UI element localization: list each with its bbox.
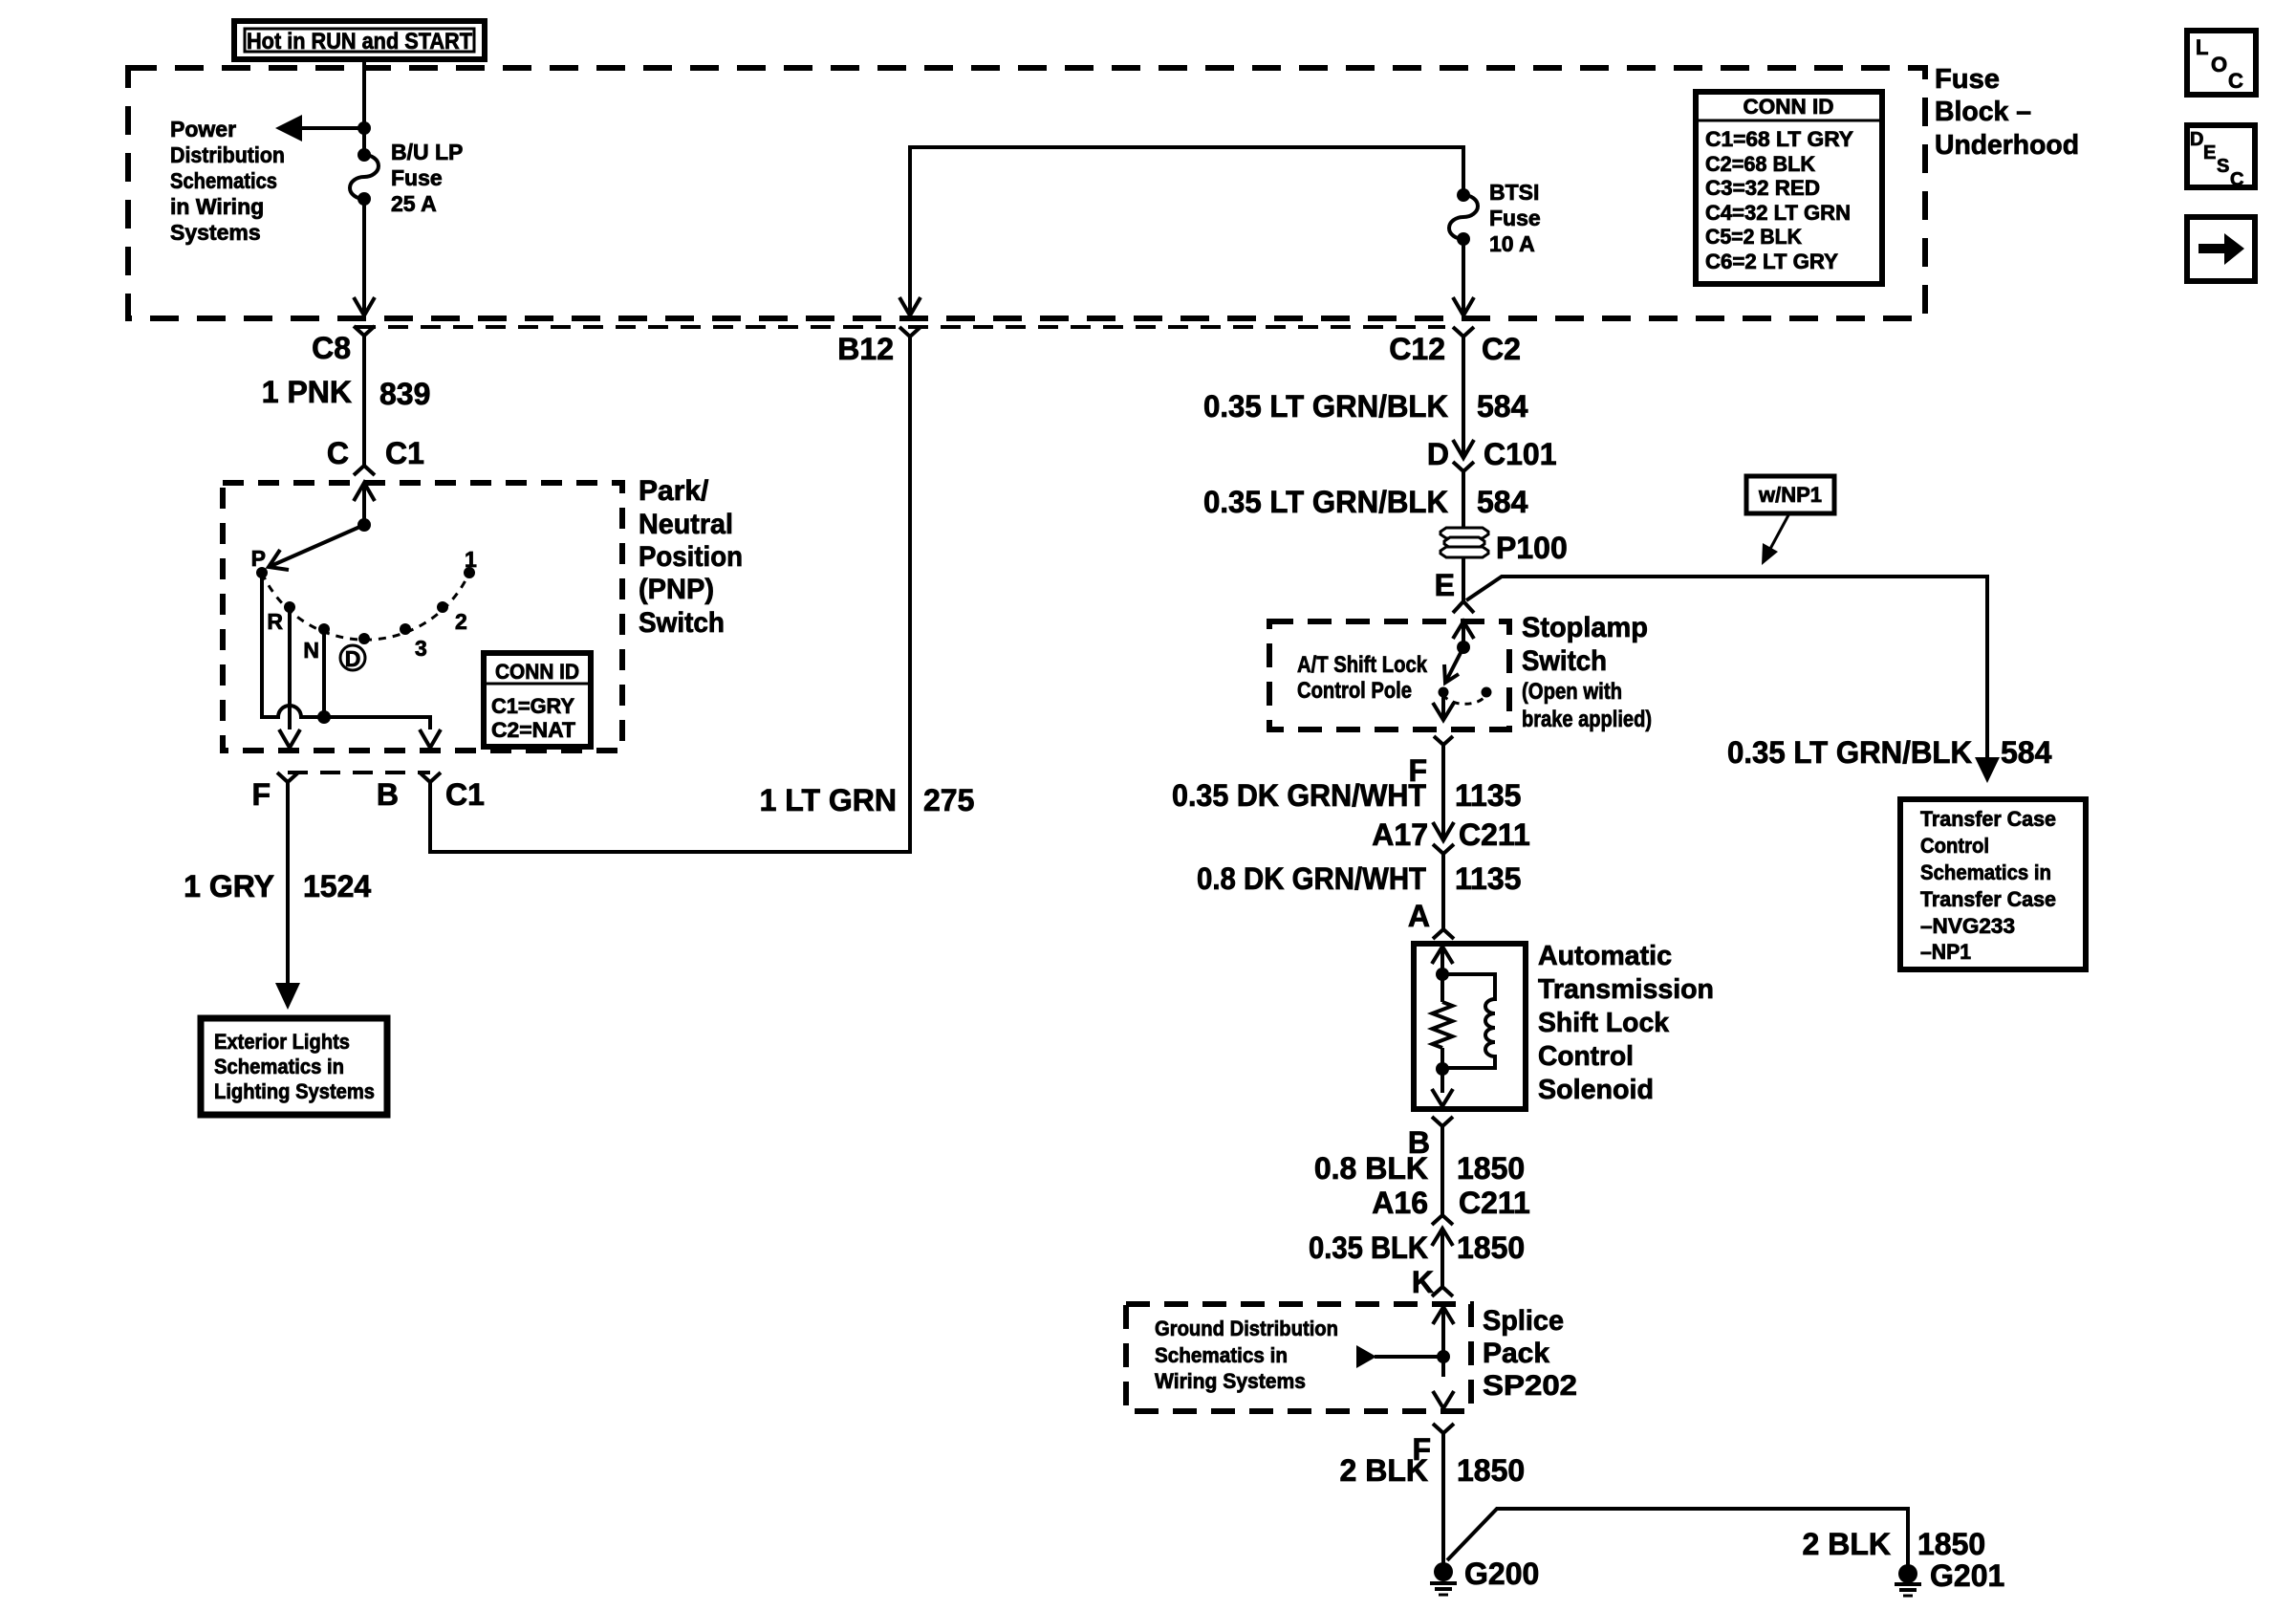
svg-text:Transmission: Transmission [1538,974,1714,1005]
wire from R down to F [288,607,292,729]
svg-text:Solenoid: Solenoid [1538,1075,1654,1105]
svg-text:Control: Control [1920,834,1989,858]
contact N [318,623,330,635]
wire: fuse down to C8 [362,199,366,316]
svg-text:Fuse: Fuse [1935,64,2000,95]
svg-text:Power: Power [170,117,236,142]
dashed travel arc [1443,694,1486,704]
solenoid internals [1432,947,1453,964]
svg-text:25 A: 25 A [391,191,437,216]
contact R [284,601,295,613]
text: Automatic Transmission Shift Lock Control Solenoid [1538,941,1714,1105]
svg-text:Ground Distribution: Ground Distribution [1155,1317,1338,1340]
text: Park/Neutral Position (PNP) Switch [639,475,743,639]
wire 1 PNK 839 [362,336,366,466]
wire 0.8 DK GRN/WHT 1135 [1441,854,1445,916]
wire 0.35 BLK 1850 [1440,1229,1444,1287]
svg-text:0.35 LT GRN/BLK: 0.35 LT GRN/BLK [1203,389,1448,424]
svg-text:0.35 LT GRN/BLK: 0.35 LT GRN/BLK [1203,485,1448,519]
arrow from w/NP1 [1770,513,1789,549]
svg-text:BTSI: BTSI [1489,180,1539,205]
connector row F / B C1 [288,771,430,774]
splice junction node SP202 [1437,1350,1450,1363]
contact P [256,567,268,578]
wire: BTSI fuse down to C12 [1462,239,1465,316]
svg-text:1850: 1850 [1917,1527,1985,1561]
svg-text:10 A: 10 A [1489,231,1535,256]
svg-text:Lighting Systems: Lighting Systems [214,1079,375,1103]
connector D C101 [1453,440,1474,458]
wire 0.8 BLK 1850 [1440,1126,1444,1215]
svg-text:Shift Lock: Shift Lock [1538,1008,1670,1038]
label box: Transfer Case Control Schematics [1900,799,2086,969]
splice internals [1433,1307,1454,1324]
icon DESC [2187,125,2255,190]
svg-text:B: B [377,777,399,812]
svg-text:C: C [2230,169,2243,190]
text: Fuse Block - Underhood [1935,64,2079,161]
CONN ID table (fuse block) [1696,92,1882,284]
svg-text:0.8 DK GRN/WHT: 0.8 DK GRN/WHT [1197,861,1426,896]
label box w/NP1 [1746,476,1834,513]
svg-text:C12: C12 [1389,332,1445,366]
svg-text:Park/: Park/ [639,475,709,507]
connector dashed line (C8/B12/C12 row) [356,325,1445,329]
svg-text:SP202: SP202 [1483,1370,1577,1402]
svg-text:C6=2 LT GRY: C6=2 LT GRY [1705,250,1838,273]
dashed contact arc [262,573,469,640]
svg-text:B/U LP: B/U LP [391,140,463,164]
connector A17 C211 [1433,822,1454,840]
wire 1 LT GRN 275 from B to B12 [430,337,910,852]
svg-text:E: E [2203,142,2216,163]
svg-text:Transfer Case: Transfer Case [1920,887,2056,911]
svg-text:275: 275 [923,783,974,817]
stoplamp switch dashed box [1269,621,1509,729]
svg-text:G201: G201 [1930,1558,2004,1593]
svg-text:CONN ID: CONN ID [495,660,579,684]
junction node (top of parallel R/L) [1436,968,1449,981]
wire w/NP1 branch [1466,577,1987,758]
wire 1 GRY 1524 [286,782,290,985]
svg-text:Block –: Block – [1935,97,2031,127]
contact 3 [400,623,411,635]
pin B below solenoid [1432,1117,1453,1126]
svg-text:0.8 BLK: 0.8 BLK [1314,1151,1428,1186]
splice pack dashed box [1126,1304,1471,1411]
wire 0.35 DK GRN/WHT 1135 [1441,745,1445,840]
svg-text:3: 3 [415,636,427,661]
contact 1 [464,567,475,578]
svg-text:C101: C101 [1484,437,1557,471]
svg-text:Fuse: Fuse [391,165,443,190]
wire to G201 [1447,1509,1908,1566]
connector C C1 [354,466,375,475]
svg-text:Wiring Systems: Wiring Systems [1155,1369,1306,1393]
label box: Hot in RUN and START [234,21,485,59]
svg-text:N: N [303,638,319,663]
contact 2 [437,601,448,613]
svg-text:CONN ID: CONN ID [1744,95,1834,119]
svg-text:C2: C2 [1482,332,1521,366]
wire from Hot box down to fuse [362,59,366,155]
connector F below stoplamp [1434,736,1453,745]
svg-text:0.35 LT GRN/BLK: 0.35 LT GRN/BLK [1727,735,1972,770]
svg-text:C1: C1 [385,436,424,470]
wire: branch to Power Distribution [298,126,364,130]
junction node (bottom of parallel R/L) [1436,1062,1449,1076]
svg-text:K: K [1412,1265,1434,1299]
svg-text:Schematics in: Schematics in [1920,860,2051,884]
svg-text:F: F [251,777,271,812]
wire 0.35 LT GRN/BLK 584 [1462,337,1465,458]
svg-text:A17: A17 [1372,817,1428,852]
pivot node [357,518,371,532]
svg-text:Hot in RUN and START: Hot in RUN and START [247,29,472,54]
fuse element nodes [357,148,371,162]
svg-text:brake applied): brake applied) [1522,707,1652,732]
svg-text:1: 1 [465,547,477,572]
svg-text:P: P [251,546,266,571]
icon LOC [2187,31,2256,95]
connector A16 C211 [1432,1215,1453,1225]
wire from P with hump over R wire [262,573,430,729]
svg-text:B12: B12 [837,332,894,366]
svg-text:Position: Position [639,541,743,573]
pin F below splice pack [1433,1424,1454,1433]
svg-text:O: O [2211,53,2227,76]
pass-through P100 [1440,528,1488,557]
wire to pin F [1441,692,1445,718]
svg-text:C: C [2228,69,2243,93]
svg-text:A16: A16 [1372,1186,1428,1220]
svg-text:0.35 DK GRN/WHT: 0.35 DK GRN/WHT [1172,778,1426,813]
svg-text:2 BLK: 2 BLK [1803,1527,1891,1561]
svg-text:–NVG233: –NVG233 [1920,914,2015,938]
solenoid box [1414,944,1526,1109]
contact (open side) [1482,687,1492,698]
svg-text:D: D [2190,129,2203,150]
svg-text:Exterior Lights: Exterior Lights [214,1030,350,1054]
svg-text:839: 839 [379,377,430,411]
svg-text:1135: 1135 [1455,778,1521,813]
fuse block - underhood dashed box [128,68,1925,318]
svg-text:584: 584 [2001,735,2052,770]
svg-text:Stoplamp: Stoplamp [1522,612,1648,643]
switch arm [1446,647,1463,681]
svg-text:C1=GRY: C1=GRY [491,694,574,718]
svg-text:Automatic: Automatic [1538,941,1672,971]
ground G200 [1434,1562,1453,1581]
svg-text:C3=32 RED: C3=32 RED [1705,176,1820,200]
svg-text:Switch: Switch [639,607,725,639]
svg-text:Schematics: Schematics [170,168,277,193]
PNP switch dashed box [223,483,622,751]
svg-text:L: L [2196,35,2208,59]
svg-text:Systems: Systems [170,220,261,245]
svg-text:Pack: Pack [1483,1338,1549,1369]
svg-text:Transfer Case: Transfer Case [1920,807,2056,831]
connector C8 [354,326,375,336]
svg-text:584: 584 [1477,485,1528,519]
icon forward arrow [2187,217,2255,281]
svg-text:P100: P100 [1496,531,1568,565]
CONN ID table (PNP) [484,653,591,747]
svg-text:Distribution: Distribution [170,142,285,167]
wire from N [322,629,326,717]
coil [1442,974,1495,1068]
svg-text:Splice: Splice [1483,1305,1564,1337]
wire: ground distribution reference arrow [1375,1355,1443,1359]
svg-text:C8: C8 [312,331,351,365]
svg-text:C: C [327,436,349,470]
text: Splice Pack SP202 [1483,1305,1577,1402]
junction node [357,121,371,135]
svg-text:2 BLK: 2 BLK [1340,1453,1428,1488]
svg-text:C211: C211 [1459,817,1530,852]
switch arm to P [269,525,364,567]
svg-text:R: R [267,609,283,634]
svg-text:1524: 1524 [303,869,371,903]
resistor [1433,1002,1453,1048]
svg-text:1850: 1850 [1457,1230,1525,1265]
ground G201 [1898,1564,1917,1583]
connector C12 C2 [1453,327,1474,337]
svg-text:Underhood: Underhood [1935,130,2079,161]
wire 2 BLK 1850 [1441,1433,1445,1564]
svg-text:Switch: Switch [1522,645,1607,677]
stoplamp internals [1453,621,1474,639]
svg-text:1 PNK: 1 PNK [262,375,352,409]
svg-text:C2=NAT: C2=NAT [491,718,576,742]
wire: BTSI feed horizontal [910,147,1463,316]
svg-text:Control: Control [1538,1041,1634,1072]
svg-text:C211: C211 [1459,1186,1530,1220]
label box: Exterior Lights Schematics in Lighting Systems [201,1018,387,1115]
svg-text:in Wiring: in Wiring [170,194,264,219]
contact (closed side) [1439,687,1449,698]
svg-text:1850: 1850 [1457,1453,1525,1488]
arrow into B [420,729,441,748]
contact D (circled) [358,633,370,644]
svg-text:1 GRY: 1 GRY [184,869,274,903]
svg-text:S: S [2217,156,2229,177]
svg-text:C4=32 LT GRN: C4=32 LT GRN [1705,201,1851,225]
svg-text:584: 584 [1477,389,1528,424]
svg-text:w/NP1: w/NP1 [1758,483,1822,507]
svg-text:(PNP): (PNP) [639,574,714,605]
svg-text:D: D [1427,437,1449,471]
wire 0.35 LT GRN/BLK 584 (engine side) [1462,471,1465,601]
svg-text:–NP1: –NP1 [1920,940,1971,964]
svg-text:Schematics in: Schematics in [214,1055,344,1078]
text: Power Distribution Schematics in Wiring Systems [170,117,285,245]
svg-text:1135: 1135 [1455,861,1521,896]
svg-text:E: E [1435,568,1455,602]
svg-text:1 LT GRN: 1 LT GRN [760,783,897,817]
svg-text:Neutral: Neutral [639,509,733,540]
text: Stoplamp Switch [1522,612,1652,732]
svg-text:Control Pole: Control Pole [1297,678,1412,704]
svg-text:Fuse: Fuse [1489,206,1541,230]
junction node N/P [317,710,331,724]
svg-text:2: 2 [455,609,467,634]
fuse element nodes [1457,188,1470,202]
junction node (pole pivot) [1457,641,1470,654]
svg-text:A: A [1408,899,1430,933]
svg-text:(Open with: (Open with [1522,679,1622,705]
svg-text:D: D [345,646,361,671]
svg-text:G200: G200 [1464,1557,1539,1591]
svg-text:C1: C1 [445,777,485,812]
svg-text:C1=68 LT GRY: C1=68 LT GRY [1705,127,1853,151]
svg-text:0.35 BLK: 0.35 BLK [1309,1230,1428,1265]
svg-text:A/T Shift Lock: A/T Shift Lock [1297,652,1428,678]
svg-text:C5=2 BLK: C5=2 BLK [1705,225,1802,249]
svg-text:Schematics in: Schematics in [1155,1343,1288,1367]
svg-text:C2=68 BLK: C2=68 BLK [1705,152,1815,176]
svg-text:1850: 1850 [1457,1151,1525,1186]
